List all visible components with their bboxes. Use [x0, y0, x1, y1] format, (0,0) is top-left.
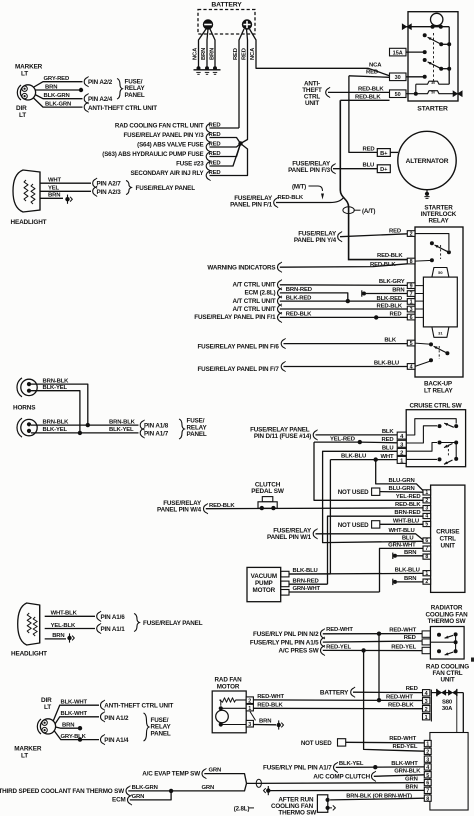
svg-text:RED: RED — [382, 437, 394, 443]
wire BLK to relay pin 5 — [284, 343, 408, 345]
svg-text:PEDAL SW: PEDAL SW — [251, 488, 285, 495]
svg-text:BRN: BRN — [405, 785, 417, 791]
wire BLK-GRN marker to anti-theft — [33, 98, 83, 108]
wire battery positive RED 1 — [239, 29, 244, 128]
svg-text:BRN-RED: BRN-RED — [394, 510, 420, 516]
cruise sw pin 3 — [397, 440, 406, 447]
svg-text:5: 5 — [410, 341, 413, 347]
wire BRN-BLK (OR BRN-WHT) to conn2 pin 8 — [330, 798, 424, 800]
node ANTI-THEFT CTRL UNIT marker2 — [101, 701, 104, 710]
svg-text:WHT-BLU: WHT-BLU — [393, 518, 419, 524]
svg-text:WHT-BLU: WHT-BLU — [389, 528, 415, 534]
node PIN A1/4 — [101, 735, 104, 744]
svg-text:NCA: NCA — [193, 47, 199, 60]
wire GRY-BLK marker2 to PIN A1/4 — [54, 731, 99, 740]
wire GRN-BLK to conn2 pin 5 — [374, 775, 425, 777]
relay pin 7 — [407, 291, 415, 297]
wire BLK-BLU vertical to vacuum pump — [329, 460, 331, 574]
svg-text:WHT: WHT — [381, 454, 395, 460]
svg-text:RED-BLK: RED-BLK — [257, 703, 283, 709]
svg-text:ANTI-THEFT CTRL UNIT: ANTI-THEFT CTRL UNIT — [104, 703, 173, 710]
svg-text:RED-YEL: RED-YEL — [391, 644, 416, 650]
cruise unit pin 4 — [423, 513, 431, 518]
ctrl unit conn1 pin 3 — [423, 698, 430, 704]
svg-text:RED: RED — [389, 229, 401, 235]
svg-text:BRN: BRN — [201, 48, 207, 60]
wire RED row 6 — [210, 144, 248, 176]
starter interlock relay box — [415, 227, 463, 377]
cruise unit pin 7 — [423, 546, 431, 551]
svg-text:PIN A2/3: PIN A2/3 — [97, 189, 122, 196]
ground rad fan motor — [277, 723, 281, 727]
svg-text:RED-BLK: RED-BLK — [358, 87, 384, 93]
svg-text:PIN A2/7: PIN A2/7 — [97, 181, 122, 188]
svg-text:1: 1 — [410, 299, 413, 305]
wire RED-WHT vertical — [378, 634, 380, 701]
svg-text:50: 50 — [438, 270, 443, 275]
svg-text:FUSE/RLY PNL PIN A1/7: FUSE/RLY PNL PIN A1/7 — [263, 764, 332, 771]
svg-text:50: 50 — [431, 91, 435, 95]
svg-text:D+: D+ — [380, 167, 388, 173]
svg-text:BLK-YEL: BLK-YEL — [109, 427, 134, 433]
svg-text:1: 1 — [425, 490, 428, 496]
svg-text:GRN: GRN — [209, 768, 222, 774]
svg-text:FUSE/RELAY PANEL PIN F/1: FUSE/RELAY PANEL PIN F/1 — [194, 314, 276, 321]
svg-text:HEADLIGHT: HEADLIGHT — [11, 219, 47, 226]
svg-text:1: 1 — [425, 715, 428, 721]
wire RED-WHT to conn2 pin 1 — [346, 741, 425, 744]
wire BLK-BLU to relay pin 4 — [284, 366, 408, 368]
svg-text:BATTERY: BATTERY — [211, 2, 242, 9]
wire YEL-RED vertical to cruise unit pin 2 — [314, 442, 423, 500]
relay pin 1 — [407, 299, 415, 305]
svg-text:BRN-BLK (OR BRN-WHT): BRN-BLK (OR BRN-WHT) — [346, 793, 412, 799]
svg-text:PANEL PIN Y/4: PANEL PIN Y/4 — [294, 237, 337, 244]
svg-text:15A: 15A — [393, 51, 403, 57]
thermo sw box — [430, 627, 464, 660]
wire GRN-WHT to cruise unit pin 7 — [380, 548, 424, 592]
svg-text:7: 7 — [425, 546, 428, 552]
ground splice BRN conn2 pin 7 — [266, 788, 270, 792]
svg-text:YEL-BLK: YEL-BLK — [51, 623, 76, 629]
node FUSE/RELAY PANEL headlight lower — [134, 614, 139, 632]
wire battery positive RED 2 — [241, 29, 248, 144]
wire BRN-BLK horn2 to PIN A1/8 — [31, 424, 139, 426]
svg-text:ALTERNATOR: ALTERNATOR — [406, 158, 449, 165]
cruise sw pin 4 — [397, 432, 406, 439]
rad fan motor pin 1 — [246, 704, 253, 711]
svg-text:GRN-WHT: GRN-WHT — [293, 586, 321, 592]
svg-text:BLK: BLK — [382, 429, 395, 435]
svg-text:FUSE/RELAY PANEL PIN F/6: FUSE/RELAY PANEL PIN F/6 — [197, 343, 279, 350]
svg-text:BRN: BRN — [62, 723, 74, 729]
svg-text:(2.8L): (2.8L) — [234, 806, 250, 813]
ctrl unit conn1 bracket line — [430, 690, 432, 722]
svg-text:2: 2 — [425, 707, 428, 713]
svg-text:LT RELAY: LT RELAY — [424, 387, 453, 394]
connector oval GRN — [256, 779, 261, 787]
cruise control unit box — [431, 485, 465, 592]
cruise sw contact set 2 — [406, 443, 437, 452]
svg-text:ECM (2.8L): ECM (2.8L) — [244, 290, 275, 297]
svg-text:GRN-BLK: GRN-BLK — [394, 769, 421, 775]
svg-text:2: 2 — [425, 579, 428, 585]
alternator — [398, 131, 456, 189]
svg-text:NOT USED: NOT USED — [338, 489, 369, 496]
svg-text:CRUISE: CRUISE — [436, 529, 460, 536]
wire RED-BLK M/T to main vertical — [276, 197, 344, 202]
cruise sw contact set 1 — [438, 424, 442, 428]
rad fan motor pin link — [250, 712, 256, 721]
headlight right — [18, 603, 40, 645]
wire RED row 1 — [210, 127, 240, 129]
ignition switch contact 1 — [423, 33, 427, 37]
wire BLK-YEL / BLK-WHT to conn2 pin 4 — [336, 766, 425, 769]
wire BRN to cruise unit pin 8 — [397, 555, 423, 557]
svg-text:RED-BLK: RED-BLK — [370, 262, 396, 268]
wire WHT-BLK headlight to PIN A1/6 — [45, 615, 95, 617]
svg-text:1: 1 — [426, 742, 429, 748]
svg-text:3: 3 — [426, 757, 429, 763]
wire RED to relay pin 6 — [280, 316, 408, 318]
splice BRN cruise pin 8 — [392, 553, 394, 559]
svg-text:A/T CTRL UNIT: A/T CTRL UNIT — [232, 298, 275, 305]
svg-text:NOT USED: NOT USED — [338, 522, 369, 529]
battery positive terminal — [242, 20, 251, 29]
svg-text:7: 7 — [426, 789, 429, 795]
svg-text:RED-WHT: RED-WHT — [257, 694, 284, 700]
svg-text:RED: RED — [233, 48, 239, 60]
svg-text:30: 30 — [431, 81, 435, 85]
svg-text:RED: RED — [363, 146, 375, 152]
wire battery negative to grounds NCA/BRN/BRN — [199, 29, 207, 68]
ground headlight BRN — [65, 197, 69, 201]
wire RED vertical to alternator B+ — [349, 76, 377, 153]
wire RED row 3 — [210, 144, 241, 148]
wire BLK-BLU — [330, 459, 375, 461]
node PIN A2/4 — [84, 94, 87, 103]
svg-text:5: 5 — [425, 522, 428, 528]
ctrl unit conn2 box — [430, 733, 468, 811]
svg-text:RED: RED — [406, 686, 418, 692]
svg-text:GRY-BLK: GRY-BLK — [61, 734, 87, 740]
svg-text:WHT-BLK: WHT-BLK — [51, 611, 78, 617]
svg-text:UNIT: UNIT — [440, 677, 454, 684]
svg-text:2: 2 — [426, 750, 429, 756]
relay pin 9 — [407, 283, 415, 289]
wire BLK-GRN / GRN third speed sw — [128, 783, 246, 791]
svg-text:MOTOR: MOTOR — [253, 587, 276, 594]
svg-text:PIN A1/4: PIN A1/4 — [104, 737, 129, 744]
wire RED-YEL vertical — [364, 650, 425, 751]
svg-text:SECONDARY AIR INJ RLY: SECONDARY AIR INJ RLY — [130, 170, 204, 177]
svg-text:ANTI-THEFT CTRL UNIT: ANTI-THEFT CTRL UNIT — [88, 105, 157, 112]
svg-text:RED-BLK: RED-BLK — [355, 95, 381, 101]
rad fan motor pin 3 — [246, 720, 253, 727]
svg-text:RED: RED — [390, 312, 402, 318]
wire BLK-YEL horn1 — [31, 391, 80, 433]
svg-text:BLK-GRN: BLK-GRN — [44, 93, 70, 99]
wire GRN from ECM — [130, 791, 171, 800]
svg-text:RED-WHT: RED-WHT — [389, 628, 416, 634]
svg-text:6: 6 — [425, 538, 428, 544]
svg-text:9: 9 — [410, 284, 413, 290]
terminal B+ — [377, 149, 390, 157]
wire RED-WHT rad fan motor — [253, 699, 422, 702]
svg-text:BLK-RED: BLK-RED — [286, 295, 311, 301]
svg-text:UNIT: UNIT — [441, 543, 456, 550]
svg-text:UNIT: UNIT — [305, 100, 319, 107]
svg-text:BLK-YEL: BLK-YEL — [43, 427, 68, 433]
svg-text:BLK-BLU: BLK-BLU — [341, 454, 366, 460]
wire YEL-RED — [314, 441, 360, 443]
node PIN A2/3 — [93, 187, 96, 196]
svg-text:A/T CTRL UNIT: A/T CTRL UNIT — [232, 306, 275, 313]
starter bump connector upper — [416, 81, 449, 84]
svg-text:RED: RED — [404, 635, 416, 641]
svg-text:RED-BLK: RED-BLK — [377, 253, 403, 259]
ctrl unit conn2 pin 8 — [424, 795, 431, 801]
splice BRN marker2 — [78, 726, 82, 730]
svg-text:GRN: GRN — [132, 794, 145, 800]
svg-text:BLK-GRN: BLK-GRN — [132, 785, 158, 791]
node FUSE/RELAY PANEL headlight — [126, 181, 131, 195]
cruise unit pin 8 — [423, 554, 431, 559]
svg-text:YEL-RED: YEL-RED — [330, 436, 355, 442]
svg-text:8: 8 — [425, 554, 428, 560]
svg-text:MARKER: MARKER — [14, 745, 42, 752]
relay bump 50 — [432, 268, 449, 278]
wire RED-BLK rad fan motor — [253, 707, 422, 709]
starter terminal line — [407, 26, 450, 28]
svg-text:4: 4 — [410, 364, 413, 370]
svg-text:PANEL PIN F/1: PANEL PIN F/1 — [230, 202, 273, 209]
svg-text:BRN: BRN — [259, 719, 271, 725]
wire WHT to cruise sw pin 1 — [376, 459, 398, 461]
wire RED row 5 — [210, 144, 241, 167]
wire BRN to relay pin 7 — [366, 293, 407, 295]
wire RED to cruise sw pin 3 — [360, 441, 397, 444]
ctrl unit conn2 pin 2 — [424, 748, 431, 754]
thermo sw stub 3 — [422, 647, 430, 653]
wire WHT-BLU to cruise unit pin 5 — [380, 523, 423, 525]
svg-text:BLK-YEL: BLK-YEL — [43, 385, 68, 391]
svg-text:RAD COOLING FAN CTRL UNIT: RAD COOLING FAN CTRL UNIT — [115, 122, 204, 129]
cruise unit lower pin 2 — [423, 579, 431, 584]
splice YEL-RED / RED — [358, 440, 362, 444]
svg-text:THERMO SW: THERMO SW — [278, 810, 316, 816]
svg-text:S80: S80 — [442, 699, 453, 705]
svg-text:BATTERY: BATTERY — [320, 690, 349, 697]
svg-text:BLK-BLU: BLK-BLU — [374, 360, 399, 366]
wire RED-BLK warning indicators to pin 8 — [280, 264, 408, 267]
wire GRY-RED marker to PIN A2/2 — [33, 82, 83, 88]
cruise sw pin 2 — [397, 448, 406, 455]
svg-text:CTRL: CTRL — [439, 536, 456, 543]
wire resistor to pin 2 — [236, 699, 247, 701]
wire BLK-WHT marker2 to PIN A1/2 — [55, 717, 99, 724]
svg-text:RED-BLK: RED-BLK — [395, 502, 421, 508]
ground 2 — [205, 66, 209, 70]
node PIN A2/7 — [93, 179, 96, 188]
wire BRN to cruise lower pin 2 — [397, 581, 423, 583]
horn 2 — [17, 418, 22, 437]
ctrl unit conn1 pin 1 — [423, 714, 430, 720]
starter left terminal — [402, 24, 411, 30]
wire battery positive NCA to starter 30 — [250, 29, 390, 76]
svg-text:RED-WHT: RED-WHT — [326, 627, 353, 633]
relay pin 6 — [407, 314, 415, 320]
svg-text:2: 2 — [248, 699, 251, 705]
wire motor to pin 3 — [221, 724, 246, 726]
wire RED-YEL to thermo sw — [323, 649, 422, 651]
svg-text:PIN A1/2: PIN A1/2 — [104, 715, 129, 722]
svg-text:A/C COMP CLUTCH: A/C COMP CLUTCH — [313, 773, 370, 780]
svg-text:NCA: NCA — [250, 47, 256, 60]
svg-text:NOT USED: NOT USED — [301, 740, 332, 747]
svg-text:RED-WHT: RED-WHT — [389, 736, 416, 742]
svg-text:RED: RED — [366, 70, 378, 76]
svg-text:BRN: BRN — [52, 633, 64, 639]
svg-text:BLK-GRY: BLK-GRY — [379, 279, 405, 285]
node PIN A1/1 — [97, 624, 100, 633]
wire RED-BLK heavy vertical to interlock relay pin 8 — [340, 100, 407, 259]
ctrl unit conn1 pin 4 — [423, 690, 430, 696]
node PIN A2/2 — [84, 77, 87, 86]
svg-text:50: 50 — [395, 92, 401, 98]
relay coil — [423, 277, 457, 327]
node FUSE/RELAY PANEL horns — [179, 419, 184, 439]
splice BRN-RED to BRN — [361, 290, 363, 296]
wire BRN-RED to cruise unit pin 4 — [328, 516, 424, 584]
wire RED to relay pin 2 — [340, 234, 407, 237]
splice BLK-BLU / WHT — [374, 457, 378, 461]
ctrl unit conn2 pin 4 — [424, 764, 431, 770]
svg-text:BLK-RED: BLK-RED — [377, 296, 402, 302]
wire BRN marker2 — [56, 727, 79, 728]
wire BLK-BLU to cruise lower pin 1 — [289, 572, 423, 575]
svg-text:B+: B+ — [380, 151, 388, 157]
splice BRN cruise lower pin 2 — [392, 579, 394, 585]
svg-text:GRN-WHT: GRN-WHT — [388, 543, 416, 549]
wire BLK to cruise sw pin 4 — [316, 434, 398, 436]
svg-text:RED-YEL: RED-YEL — [393, 744, 418, 750]
ground alternator — [426, 190, 428, 193]
svg-text:BRN: BRN — [45, 84, 57, 90]
relay pin stubs — [415, 285, 423, 287]
svg-text:THERMO SW: THERMO SW — [428, 618, 466, 625]
svg-text:LT: LT — [19, 112, 26, 119]
cruise unit lower pin 1 — [423, 571, 431, 576]
svg-text:BRN-RED: BRN-RED — [293, 578, 319, 584]
svg-text:PIN A1/7: PIN A1/7 — [144, 430, 169, 437]
svg-text:VACUUM: VACUUM — [251, 573, 277, 580]
svg-text:FUSE/RELAY PANEL PIN Y/3: FUSE/RELAY PANEL PIN Y/3 — [124, 132, 205, 139]
svg-text:3: 3 — [425, 506, 428, 512]
svg-text:RED-WHT: RED-WHT — [386, 694, 413, 700]
svg-text:MOTOR: MOTOR — [217, 683, 240, 690]
svg-text:DIR: DIR — [16, 105, 27, 112]
wire YEL-BLK headlight to PIN A1/1 — [45, 628, 95, 630]
cruise unit pin 1 — [423, 490, 431, 495]
wire GRN from A/C evap temp sw — [204, 774, 246, 784]
svg-text:(S63) ABS HYDRAULIC PUMP FUSE: (S63) ABS HYDRAULIC PUMP FUSE — [102, 151, 203, 158]
svg-text:BLK-WHT: BLK-WHT — [391, 761, 418, 767]
svg-text:ECM: ECM — [112, 796, 126, 803]
wire motor to pin 1 — [221, 707, 246, 709]
wire BRN-BLK horn1 — [31, 384, 88, 425]
svg-text:GRN: GRN — [202, 785, 215, 791]
wire RED-BLK anti-theft to starter 50 — [328, 91, 390, 93]
svg-text:6: 6 — [410, 315, 413, 321]
svg-text:WARNING INDICATORS: WARNING INDICATORS — [207, 264, 275, 271]
svg-text:RED-BLK: RED-BLK — [377, 303, 403, 309]
starter dashed link — [433, 33, 435, 82]
wire BLK-GRN marker to PIN A2/4 — [35, 95, 83, 99]
svg-text:RED-YEL: RED-YEL — [326, 644, 351, 650]
cruise sw pin 1 — [397, 456, 406, 463]
marker light rear — [37, 719, 41, 734]
vacuum pump motor box — [247, 567, 281, 601]
starter bump connector lower — [406, 91, 456, 94]
svg-text:BLK: BLK — [384, 338, 397, 344]
svg-text:FUSE #23: FUSE #23 — [176, 160, 204, 167]
svg-text:2: 2 — [410, 231, 413, 237]
starter right terminal — [453, 91, 462, 97]
ctrl unit conn2 pin 3 — [424, 756, 431, 762]
svg-text:PIN A2/4: PIN A2/4 — [88, 96, 113, 103]
wire BRN-RED vacuum pump — [289, 583, 328, 585]
ctrl unit conn2 pin 1 — [424, 740, 431, 746]
wire BRN headlight to ground — [40, 197, 63, 199]
relay bump lower — [432, 327, 449, 337]
svg-text:CRUISE CTRL SW: CRUISE CTRL SW — [409, 402, 461, 409]
svg-text:BLK-BLU: BLK-BLU — [395, 568, 420, 574]
ctrl unit conn2 pin 5 — [424, 772, 431, 778]
ground after run thermo sw — [328, 805, 336, 810]
wire BLU from cruise sw pin 2 — [323, 451, 423, 542]
svg-text:RELAY: RELAY — [428, 218, 449, 225]
starter right interior vertical — [448, 27, 450, 84]
headlight left — [13, 170, 40, 212]
svg-text:1: 1 — [248, 706, 251, 712]
cruise unit pin 2 — [423, 498, 431, 503]
svg-text:PANEL: PANEL — [187, 431, 207, 438]
svg-text:BRN-RED: BRN-RED — [286, 287, 312, 293]
svg-text:LT: LT — [21, 71, 28, 78]
svg-text:BLK-GRN: BLK-GRN — [45, 102, 71, 108]
node FUSE/RELAY PANEL marker2 — [144, 713, 149, 741]
svg-text:PIN A1/8: PIN A1/8 — [144, 422, 169, 429]
connector (A/T) oval — [343, 207, 354, 214]
ignition switch contact 2 — [423, 58, 427, 62]
svg-text:3: 3 — [248, 722, 251, 728]
svg-text:7: 7 — [410, 291, 413, 297]
svg-text:BRN: BRN — [48, 193, 60, 199]
svg-text:PANEL: PANEL — [151, 731, 171, 738]
svg-text:2: 2 — [400, 450, 403, 456]
relay pin 3 — [407, 306, 415, 312]
svg-text:HORNS: HORNS — [13, 404, 36, 411]
wire BLK-RED to relay pin 1 — [280, 300, 408, 302]
svg-text:BRN: BRN — [404, 576, 416, 582]
svg-text:8: 8 — [410, 259, 413, 265]
relay pin 2 — [407, 231, 415, 237]
svg-text:4: 4 — [425, 514, 428, 520]
ctrl unit conn2 pin 7 — [424, 787, 431, 793]
svg-text:5: 5 — [426, 773, 429, 779]
svg-text:PANEL PIN W/4: PANEL PIN W/4 — [157, 507, 202, 514]
